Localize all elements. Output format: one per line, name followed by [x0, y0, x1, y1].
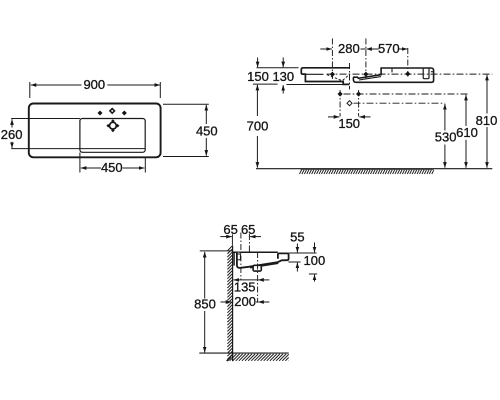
dim 610 line	[465, 95, 467, 126]
dim 260 line bottom	[11, 142, 13, 148]
chain horizontal 530 level	[354, 102, 446, 104]
basin left section profile	[301, 68, 349, 85]
faucet hole center star	[109, 108, 116, 115]
dim 150 arrow down	[257, 58, 259, 68]
faucet hole small right	[122, 111, 127, 116]
hidden drain slope dashed	[327, 75, 348, 81]
dim 850 line	[204, 252, 206, 299]
dim 450 right line	[205, 105, 207, 124]
rim inner line	[306, 73, 324, 75]
svg-text:570: 570	[378, 41, 400, 56]
svg-text:530: 530	[435, 130, 457, 145]
ground hatch side view	[300, 170, 434, 174]
dim 150 bottom extension	[253, 83, 278, 85]
svg-text:810: 810	[476, 113, 498, 128]
svg-text:100: 100	[304, 253, 326, 268]
dim 810 line	[486, 75, 488, 114]
dim 900 line left	[31, 84, 82, 86]
bowl ledge line + 260 extension	[11, 148, 145, 150]
svg-text:280: 280	[338, 41, 360, 56]
dim 135 line + inside left arrow	[234, 279, 240, 281]
chain bolt axis 1	[240, 233, 242, 280]
dim 260 line top	[11, 119, 13, 127]
svg-text:130: 130	[272, 69, 294, 84]
dim 280 arrow right	[366, 48, 378, 50]
svg-text:55: 55	[290, 230, 304, 245]
dim 130 bottom extension	[286, 84, 346, 86]
basin back edge line	[233, 252, 235, 265]
wall face line	[232, 246, 234, 362]
ext line 100 bottom	[309, 273, 317, 275]
ext 850 top	[200, 250, 233, 252]
dim 280 segment right	[361, 48, 366, 50]
dim 570 segment	[399, 48, 408, 50]
chain axis drain	[349, 63, 351, 90]
svg-text:150: 150	[247, 69, 269, 84]
step line right box	[391, 68, 393, 72]
dim 55 arrow down	[296, 244, 298, 253]
basin top surface line	[233, 251, 278, 253]
chain bolt axis 2	[248, 234, 250, 252]
overflow notch	[423, 69, 429, 79]
svg-text:150: 150	[338, 116, 360, 131]
chain fixing left	[339, 90, 341, 117]
bowl rect plan	[80, 119, 145, 153]
fixing hole diamonds side view	[330, 71, 411, 96]
dim 450 right extensions	[163, 103, 209, 105]
svg-text:65: 65	[223, 222, 237, 237]
svg-text:200: 200	[234, 294, 256, 309]
bowl under second line	[250, 263, 278, 268]
svg-text:610: 610	[456, 125, 478, 140]
dim 200 outside right arrow	[258, 301, 269, 303]
svg-text:65: 65	[241, 222, 255, 237]
svg-text:700: 700	[247, 119, 269, 134]
chain axis mid	[365, 39, 367, 81]
chain horizontal 610 level	[344, 93, 468, 95]
dim 135 outside right arrow	[258, 279, 269, 281]
dim 100 arrow down	[314, 243, 316, 253]
siphon hole open diamond	[347, 101, 352, 106]
260 top extension / bowl top	[11, 118, 80, 120]
chain fixing right	[358, 90, 360, 117]
dim 280 arrow left	[320, 48, 332, 50]
dim 450 bottom line	[81, 167, 101, 169]
dim 700 line with top arrow	[256, 85, 258, 93]
dim 100 arrow up	[314, 275, 316, 282]
ext line lip top	[288, 252, 316, 254]
chain horizontal rim level	[327, 73, 493, 75]
svg-text:850: 850	[194, 297, 216, 312]
ground line side view	[256, 168, 492, 170]
svg-text:450: 450	[196, 123, 218, 138]
dim 65 arrow left	[220, 236, 232, 238]
faucet hole small left	[98, 108, 127, 116]
dim 200 outside left arrow	[221, 301, 232, 303]
dim 900 line right	[107, 84, 160, 86]
wall hatch band	[227, 246, 232, 362]
drain boss bottom view	[253, 265, 261, 271]
dim 55 arrow up	[296, 263, 298, 272]
floor line bottom view	[199, 352, 288, 354]
basin front lip section	[237, 252, 289, 267]
tray inner line	[359, 77, 381, 80]
basin right section profile	[353, 68, 433, 82]
lip step right	[431, 71, 434, 73]
svg-text:135: 135	[234, 280, 256, 295]
dim 65 arrow right	[250, 236, 261, 238]
ext 65 line	[231, 234, 233, 245]
svg-text:900: 900	[83, 77, 105, 92]
basin outer rect plan	[29, 104, 161, 158]
dim 150-130 top extension	[257, 67, 299, 69]
svg-text:260: 260	[1, 127, 23, 142]
dim 130 arrow up	[282, 85, 284, 93]
dim 130 arrow down	[282, 58, 284, 68]
chain axis faucet left	[331, 39, 333, 81]
ext line lip bottom	[288, 261, 300, 263]
dim 900 extension right	[159, 82, 161, 98]
chain drain axis bottom	[257, 252, 259, 303]
bracket slot	[237, 254, 241, 260]
floor hatch bottom view	[227, 354, 289, 361]
dim 200 mid segment	[256, 301, 258, 303]
chain axis right	[407, 48, 409, 77]
dim 450 bottom extensions	[79, 153, 81, 173]
dim 530 line	[444, 104, 446, 131]
dim 150 mid arrows	[328, 116, 339, 118]
svg-text:450: 450	[101, 160, 123, 175]
drain symbol plan	[106, 119, 119, 132]
dim 900 extension left	[29, 82, 31, 98]
